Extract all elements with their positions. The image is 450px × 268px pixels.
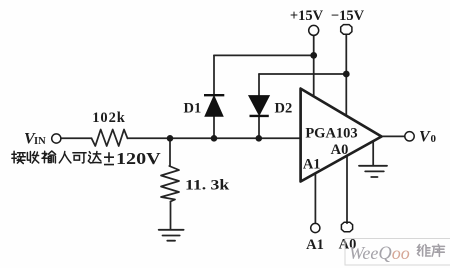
svg-text:V: V — [419, 129, 431, 146]
svg-text:+15V: +15V — [290, 8, 324, 24]
svg-text:D2: D2 — [275, 101, 293, 117]
svg-text:A1: A1 — [306, 237, 324, 253]
svg-text:IN: IN — [34, 136, 46, 147]
svg-text:A0: A0 — [331, 142, 349, 158]
svg-text:102k: 102k — [92, 110, 125, 126]
svg-text:120V: 120V — [116, 150, 161, 168]
svg-text:PGA103: PGA103 — [305, 126, 357, 142]
svg-text:D1: D1 — [184, 101, 202, 117]
svg-text:WeeQoo: WeeQoo — [349, 243, 410, 264]
svg-text:0: 0 — [431, 133, 437, 145]
svg-text:−15V: −15V — [331, 8, 365, 24]
svg-text:A1: A1 — [303, 157, 321, 173]
svg-text:11. 3k: 11. 3k — [185, 178, 229, 193]
